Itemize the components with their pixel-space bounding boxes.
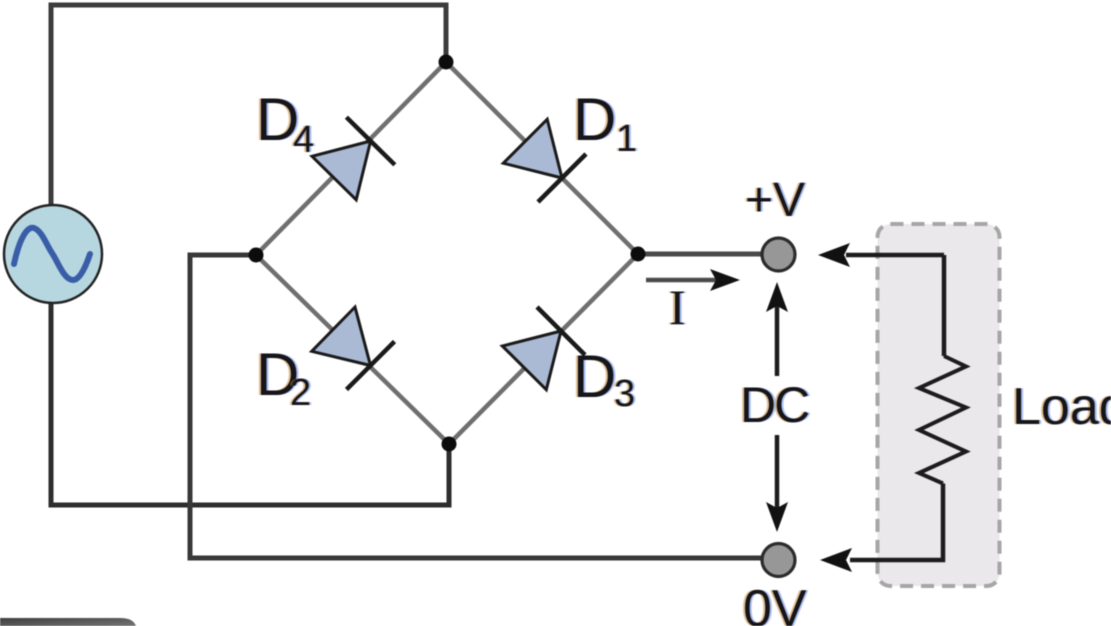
diode D4 (312, 117, 395, 200)
wire bridge right node to +V terminal (638, 252, 762, 257)
wire top rail from source to bridge top (51, 5, 446, 205)
terminal 0V (762, 544, 795, 577)
svg-text:4: 4 (293, 119, 314, 161)
svg-text:D: D (573, 86, 616, 153)
load box dashed (878, 224, 1000, 586)
DC arrow down (766, 435, 788, 532)
svg-text:Load: Load (1012, 378, 1111, 436)
svg-text:2: 2 (290, 372, 311, 414)
svg-text:I: I (669, 279, 686, 335)
arrow into +V from load (818, 243, 944, 267)
svg-text:DC: DC (740, 377, 809, 433)
node left (249, 248, 264, 263)
svg-text:3: 3 (614, 373, 635, 415)
AC source V1 (4, 205, 102, 303)
load wire bottom (850, 484, 943, 561)
bridge edge wire left-bottom (256, 255, 449, 444)
wire bridge left node to 0V rail (190, 255, 762, 558)
node top (439, 55, 454, 70)
bridge edge wire top-right (446, 62, 638, 254)
browser tab corner (0, 618, 136, 626)
bridge edge wire bottom-right (449, 254, 638, 444)
resistor load (919, 356, 966, 484)
node right (631, 247, 646, 262)
load wire top (942, 255, 947, 356)
arrow into 0V from load (820, 548, 852, 572)
diode D3 (502, 307, 585, 390)
DC arrow up (766, 282, 788, 376)
svg-text:0V: 0V (743, 580, 807, 626)
svg-text:+V: +V (745, 174, 805, 227)
bridge edge wire left-top (256, 62, 446, 255)
node bottom (442, 437, 457, 452)
terminal +V (762, 238, 795, 271)
svg-text:D: D (573, 343, 616, 410)
diode D1 (503, 119, 586, 202)
current arrow I (646, 269, 740, 291)
svg-text:1: 1 (616, 118, 637, 160)
wire source bottom to bridge bottom (51, 303, 449, 505)
diode D2 (312, 307, 395, 390)
